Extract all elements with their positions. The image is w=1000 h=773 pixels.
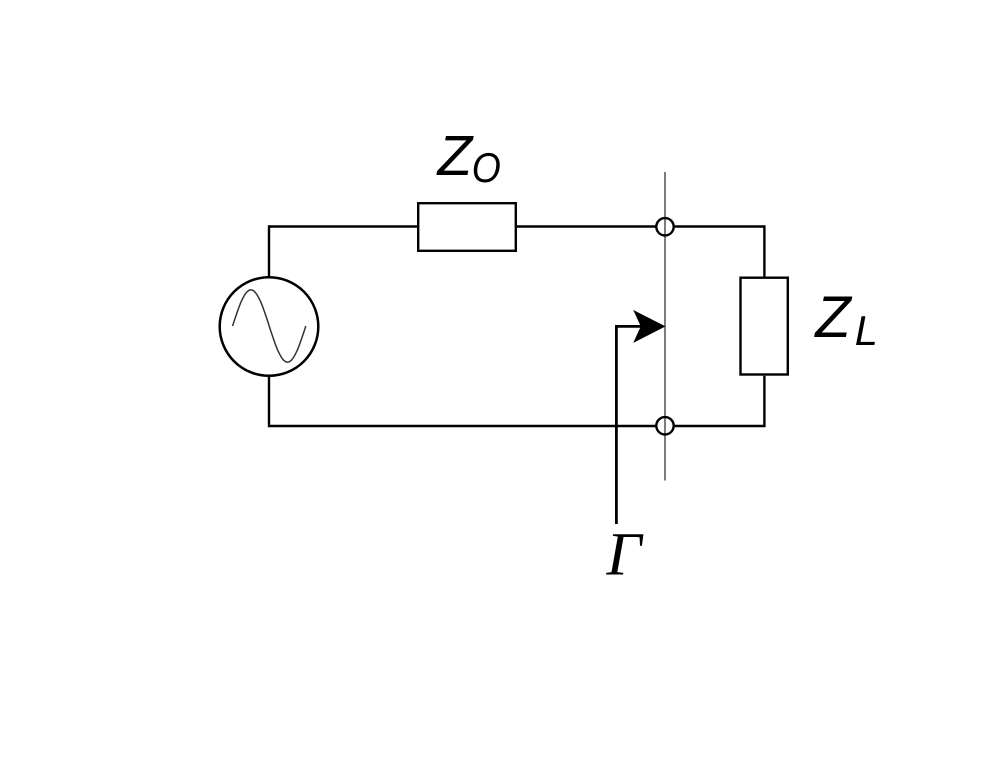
- sine wave inside source: [233, 290, 306, 362]
- wire left vertical lower: [268, 377, 270, 428]
- svg-text:O: O: [472, 145, 501, 191]
- wire left vertical upper: [268, 225, 270, 276]
- wire top-right of resistor to terminal: [517, 225, 656, 227]
- terminal node top (open circle): [656, 218, 673, 235]
- svg-text:Γ: Γ: [606, 521, 644, 589]
- wire bottom horizontal left of terminal: [269, 425, 656, 427]
- svg-text:Z: Z: [436, 125, 475, 188]
- gamma arrow lines: [616, 326, 642, 524]
- load ZL body: [741, 278, 788, 375]
- wire top-left horizontal: [269, 225, 417, 227]
- resistor ZO body: [418, 203, 516, 251]
- terminal node bottom (open circle): [656, 417, 673, 434]
- wire bottom right of terminal: [675, 376, 765, 426]
- source V1 (AC) circle: [220, 277, 319, 376]
- wire terminal to right corner: [675, 227, 765, 277]
- gamma arrowhead: [633, 310, 665, 343]
- reference plane line (vertical gray): [664, 172, 666, 481]
- svg-text:ZL: ZL: [813, 285, 878, 354]
